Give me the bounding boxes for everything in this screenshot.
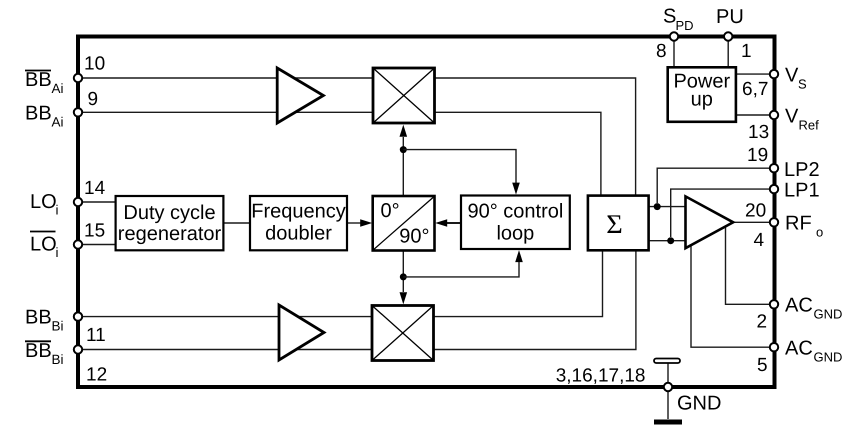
svg-text:20: 20 — [745, 201, 766, 222]
wire RF amplifier to ACGND pin5 — [691, 232, 770, 347]
pin 4 terminal RFo — [770, 218, 778, 226]
svg-text:11: 11 — [86, 325, 106, 346]
pin 5 terminal ACGND — [770, 343, 778, 351]
svg-text:0°: 0° — [381, 200, 400, 222]
svg-text:LP1: LP1 — [784, 180, 820, 202]
svg-text:BB: BB — [25, 340, 52, 362]
svg-text:BB: BB — [25, 307, 52, 329]
svg-text:GND: GND — [814, 307, 843, 322]
ground symbol — [654, 420, 682, 425]
block phase splitter 0/90 — [373, 196, 435, 251]
mixer M2 (Q mixer) — [372, 306, 434, 361]
svg-text:Duty cycle: Duty cycle — [123, 202, 215, 224]
svg-text:LP2: LP2 — [784, 159, 820, 181]
svg-text:Ref: Ref — [799, 117, 820, 132]
label ACGND pin2 — [785, 295, 842, 322]
svg-text:14: 14 — [84, 178, 106, 199]
svg-text:S: S — [798, 77, 807, 92]
wire PU pin to power up block — [727, 39, 729, 68]
svg-text:6,7: 6,7 — [742, 79, 768, 100]
svg-text:o: o — [816, 225, 823, 240]
pin 2 terminal ACGND — [770, 300, 778, 308]
amplifier A1 (BBA input buffer) — [277, 68, 323, 123]
svg-text:3,16,17,18: 3,16,17,18 — [556, 366, 646, 387]
wire summer output plus to RF amplifier — [649, 206, 686, 208]
pin 6,7 terminal VS — [770, 70, 778, 78]
label SPD — [663, 6, 694, 33]
svg-text:Ai: Ai — [52, 81, 64, 96]
svg-text:12: 12 — [86, 365, 107, 386]
pin 10 terminal — [74, 74, 82, 82]
block 90deg control loop — [461, 196, 570, 250]
label VS — [785, 65, 807, 92]
label ACGND pin5 — [785, 338, 842, 365]
wire BBAi pin9 input — [82, 111, 373, 113]
junction node LP2 tap — [654, 203, 661, 210]
svg-text:90° control: 90° control — [467, 201, 563, 223]
svg-text:19: 19 — [747, 145, 768, 166]
svg-text:90°: 90° — [399, 226, 429, 248]
label LOi-bar pin15 — [30, 234, 59, 261]
pin 15 terminal — [74, 240, 82, 248]
pin 13 terminal VRef — [770, 111, 778, 119]
svg-text:V: V — [785, 105, 799, 127]
wire summer output minus to RF amplifier — [649, 240, 686, 242]
block summer sigma — [588, 196, 649, 251]
wire SPD pin to power up block — [673, 39, 675, 68]
label BBAi-bar pin10 — [25, 69, 64, 96]
svg-text:LO: LO — [30, 234, 57, 256]
svg-text:i: i — [56, 245, 59, 260]
label BBBi pin11 — [25, 307, 64, 334]
svg-text:5: 5 — [757, 355, 768, 376]
wire mixer1 output I- to summer top — [435, 112, 601, 196]
wire duty cycle regenerator to frequency doubler — [223, 222, 250, 224]
svg-text:Frequency: Frequency — [251, 201, 346, 223]
wire phase splitter 90deg output down to mixer2 with arrow — [402, 251, 404, 293]
svg-text:10: 10 — [84, 54, 105, 75]
label LOi pin14 — [30, 191, 59, 218]
svg-text:Ai: Ai — [52, 115, 64, 130]
block duty cycle regenerator — [116, 196, 224, 250]
svg-text:i: i — [56, 203, 59, 218]
svg-text:PU: PU — [716, 6, 744, 28]
svg-text:AC: AC — [785, 338, 813, 360]
label BBBi-bar pin12 — [25, 340, 64, 367]
svg-text:BB: BB — [25, 69, 52, 91]
wire mixer2 output Q+ to summer bottom — [434, 250, 603, 317]
svg-text:8: 8 — [656, 41, 667, 62]
svg-text:PD: PD — [676, 18, 694, 33]
mixer M1 (I mixer) — [373, 68, 435, 123]
wire phase splitter 0deg output up to mixer1 with arrow — [402, 137, 404, 196]
svg-text:Bi: Bi — [52, 352, 64, 367]
svg-text:S: S — [663, 6, 676, 28]
svg-text:GND: GND — [677, 392, 721, 414]
wire RF amplifier to ACGND pin2 — [726, 220, 771, 304]
wire BBBi pin11 input — [82, 316, 372, 318]
svg-text:regenerator: regenerator — [118, 223, 222, 245]
svg-text:9: 9 — [88, 89, 99, 110]
pin 1 terminal PU — [724, 32, 732, 40]
wire internal rail to GND pin — [667, 363, 669, 419]
wire BBAi-bar pin10 input — [82, 77, 373, 79]
svg-text:GND: GND — [814, 350, 843, 365]
pin 11 terminal — [74, 312, 82, 320]
amplifier A2 (BBB input buffer) — [279, 305, 324, 360]
pin 12 terminal — [74, 345, 82, 353]
wire LOi pin14 input — [82, 201, 116, 203]
svg-text:V: V — [785, 65, 799, 87]
wire 90deg control loop to phase splitter with arrow — [447, 222, 461, 224]
svg-text:AC: AC — [785, 295, 813, 317]
wire BBBi-bar pin12 input — [82, 349, 372, 351]
svg-text:13: 13 — [748, 122, 769, 143]
svg-text:Σ: Σ — [606, 209, 623, 239]
wire LP1 pin to summer minus output — [671, 189, 770, 237]
svg-text:4: 4 — [754, 230, 765, 251]
wire LO-I branch to control loop top with arrow — [403, 150, 516, 183]
block frequency doubler — [250, 196, 347, 250]
IC boundary box — [78, 37, 775, 388]
internal ground rail plate — [654, 359, 680, 364]
block power up — [668, 67, 736, 122]
svg-text:doubler: doubler — [265, 223, 332, 245]
svg-text:loop: loop — [496, 223, 534, 245]
svg-text:Bi: Bi — [52, 319, 64, 334]
junction node LO-Q branch — [400, 273, 407, 280]
wire LP2 pin to summer plus output — [657, 168, 770, 203]
wire RF amplifier output to RFo pin — [733, 221, 770, 223]
wire power up block to VRef pin — [736, 114, 770, 116]
wire power up block to VS pin — [736, 73, 770, 75]
svg-text:15: 15 — [84, 221, 105, 242]
wire mixer2 output Q- to summer bottom — [434, 250, 636, 350]
svg-text:RF: RF — [785, 213, 812, 235]
svg-text:2: 2 — [757, 312, 768, 333]
svg-text:BB: BB — [25, 103, 52, 125]
wire mixer1 output I+ to summer top — [435, 78, 636, 196]
junction node LO-I branch — [400, 146, 407, 153]
svg-text:1: 1 — [741, 41, 752, 62]
pin 20 terminal LP1 — [770, 185, 778, 193]
pin 3,16,17,18 terminal GND — [664, 383, 672, 391]
svg-text:up: up — [691, 89, 713, 111]
label BBAi pin9 — [25, 103, 64, 130]
pin 9 terminal — [74, 108, 82, 116]
wire frequency doubler to phase splitter with arrow — [347, 222, 361, 224]
label VRef — [785, 105, 819, 132]
wire LOi-bar pin15 input — [82, 244, 116, 246]
label RFo — [785, 213, 823, 240]
amplifier A3 (RF output buffer) — [686, 196, 734, 248]
pin 19 terminal LP2 — [770, 164, 778, 172]
pin 14 terminal — [74, 198, 82, 206]
junction node LP1 tap — [667, 237, 674, 244]
wire LO-Q branch to control loop bottom with arrow — [403, 262, 519, 277]
svg-text:LO: LO — [30, 191, 57, 213]
pin 8 terminal SPD — [670, 32, 678, 40]
